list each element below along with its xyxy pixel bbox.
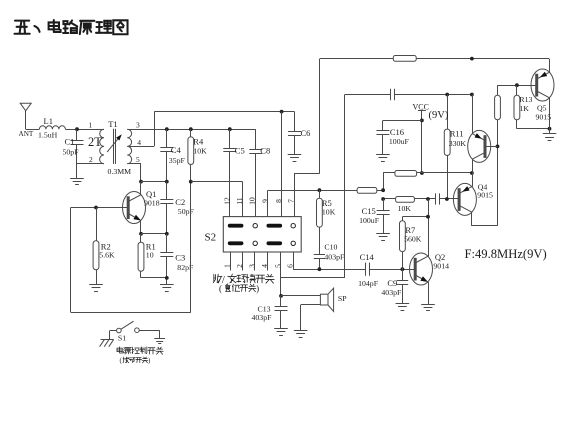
svg-text:403pF: 403pF (381, 288, 402, 297)
wire S2 pin8 up to rail (281, 112, 283, 217)
ground under Q2 (421, 305, 435, 311)
capacitor C8 (249, 129, 270, 216)
svg-text:35pF: 35pF (169, 156, 186, 165)
ground under C15 (376, 234, 390, 241)
resistor R4 10K (188, 129, 207, 164)
wire node R4bottom to S2 pin11 (191, 182, 243, 217)
label F:49.8MHz(9V) (465, 247, 547, 261)
svg-text:0.3MM: 0.3MM (108, 167, 132, 176)
ground under C16 (376, 155, 390, 162)
capacitor C5 (223, 129, 244, 216)
svg-text:S2: S2 (205, 232, 217, 244)
switch S1 (110, 321, 140, 342)
capacitor C4 35pF (160, 129, 185, 181)
ground under Q5 (543, 134, 557, 141)
switch S2 body (205, 217, 302, 252)
svg-text:9014: 9014 (433, 261, 449, 270)
svg-text:(9V): (9V) (429, 110, 449, 121)
transistor Q2 9014 (410, 252, 450, 285)
resistor 10K row199 (396, 197, 415, 213)
speaker SP (320, 288, 347, 311)
svg-text:3: 3 (136, 121, 140, 130)
label (拨动开关) (120, 357, 151, 365)
ground under speaker (294, 331, 308, 338)
svg-text:330K: 330K (449, 139, 467, 148)
wire Q1 emitter (139, 221, 169, 236)
svg-text:11: 11 (235, 197, 244, 204)
ground under C3 (160, 285, 174, 292)
wire S2 pin6 to audio row (293, 252, 295, 269)
ground under C9 (396, 304, 410, 311)
capacitor C13 403pF (252, 296, 288, 329)
svg-text:100uF: 100uF (389, 137, 410, 146)
S2 bottom pin stubs (231, 252, 268, 271)
resistor unlabeled top (393, 56, 416, 62)
wire pin4 to rail (154, 112, 156, 146)
svg-text:C6: C6 (301, 128, 311, 138)
wire row94 right (395, 93, 474, 97)
wire speaker row to riser (281, 277, 345, 279)
wire VCC row 173 (383, 171, 474, 190)
resistor R5 10K (317, 190, 336, 227)
wire Q2 collector (426, 199, 430, 256)
capacitor C15 100uF (359, 199, 390, 234)
transformer T1 primary 2T (88, 121, 104, 165)
resistor R7 560K (400, 217, 429, 270)
svg-text:C16: C16 (390, 127, 404, 137)
svg-text:10K: 10K (398, 204, 412, 213)
wire Q3 collector to Q4 (472, 159, 474, 186)
svg-text:9015: 9015 (477, 191, 493, 200)
svg-text:Q2: Q2 (435, 252, 445, 262)
svg-text:S1: S1 (118, 334, 126, 343)
capacitor C14 104pF (358, 252, 379, 288)
svg-text:1: 1 (89, 121, 93, 130)
resistor unlabeled feedback (495, 95, 501, 119)
svg-text:1: 1 (222, 264, 231, 268)
wire collector to C2 node (141, 180, 169, 184)
S2 contacts row2 (228, 241, 296, 245)
S2 bottom pin labels 1-6 (222, 264, 294, 268)
wire audio row right (369, 267, 415, 271)
label S2 收/发转换开关 (213, 274, 274, 286)
capacitor series Q4 base (436, 193, 440, 204)
svg-text:10K: 10K (193, 147, 207, 156)
svg-text:C5: C5 (235, 145, 245, 155)
wire pin3 row (127, 127, 256, 131)
wire L1-T1 with node (65, 127, 104, 131)
svg-text:): ) (256, 283, 259, 293)
svg-text:C15: C15 (362, 206, 376, 216)
resistor R11 330K (444, 95, 466, 200)
resistor R13 1K (514, 85, 532, 129)
wire audio row left (293, 267, 366, 271)
resistor R2 5.6K (93, 208, 115, 285)
svg-text:50pF: 50pF (63, 148, 80, 157)
ground under R2 (89, 285, 103, 292)
svg-text:2: 2 (89, 155, 93, 164)
svg-text:403pF: 403pF (324, 253, 345, 262)
wire ant-L1 (26, 129, 40, 131)
svg-text:5.6K: 5.6K (99, 251, 115, 260)
svg-text:VCC: VCC (413, 103, 429, 112)
ground under C6 (288, 155, 302, 162)
capacitor C16 100uF (376, 120, 409, 154)
wire Q5 base row (498, 83, 537, 95)
antenna ANT (19, 103, 34, 138)
wire Q2 emitter (428, 282, 430, 304)
svg-text:9018: 9018 (144, 199, 160, 208)
transformer T1 core with arrow (107, 119, 131, 176)
title text 五、电路原理图 (14, 20, 127, 34)
svg-text:F:49.8MHz(9V): F:49.8MHz(9V) (465, 247, 547, 261)
svg-text:R11: R11 (450, 129, 464, 139)
wire Q4 emitter row (472, 225, 498, 227)
wire R1-C3 bottom (141, 276, 169, 280)
wire row94 left (345, 94, 391, 96)
svg-text:R13: R13 (519, 95, 532, 104)
svg-text:R5: R5 (322, 198, 332, 208)
wire Q3 emitter up (472, 95, 474, 134)
transistor Q3 (unlabeled) (468, 130, 498, 162)
svg-text:Q5: Q5 (537, 104, 547, 113)
VCC terminal (413, 103, 449, 175)
wire S2 pin5 down (279, 252, 283, 298)
wire S2 pin9 up (267, 190, 269, 216)
svg-text:12: 12 (222, 197, 231, 205)
S2 top pin labels 12-7 (222, 197, 295, 205)
ground under C13 (274, 329, 288, 336)
svg-text:Q1: Q1 (146, 189, 156, 199)
wire Q5 collector down (549, 98, 551, 134)
wire row190 (268, 188, 385, 192)
wire row199 mid (414, 197, 435, 201)
transistor Q4 9015 (453, 183, 493, 216)
svg-text:403pF: 403pF (252, 313, 273, 322)
svg-text:2T: 2T (88, 135, 102, 149)
transformer T1 secondary (127, 121, 141, 165)
S2 contacts row1 (228, 224, 296, 228)
capacitor C2 50pF (160, 182, 194, 234)
label S2 (复位开关) (219, 283, 259, 293)
svg-text:10K: 10K (322, 208, 336, 217)
svg-text:R4: R4 (193, 137, 204, 147)
wire bias loop left (70, 208, 72, 313)
wire Q1 base (71, 206, 129, 210)
resistor unlabeled row190 (357, 188, 377, 194)
svg-text:5: 5 (136, 155, 140, 164)
wire T1 pin2 (77, 163, 104, 165)
transistor Q1 9018 (123, 189, 160, 224)
transistor Q5 9015 (531, 69, 554, 122)
wire row199 left (381, 197, 395, 201)
wire bias loop right to R4 (189, 164, 193, 312)
label 电源控制开关 (117, 347, 163, 354)
wire pin5 to Q1 collector (127, 164, 143, 184)
svg-text:9015: 9015 (536, 113, 552, 122)
svg-text:82pF: 82pF (177, 263, 194, 272)
wire S1 right (139, 330, 160, 338)
svg-text:1K: 1K (519, 104, 529, 113)
svg-text:(: ( (219, 283, 222, 293)
svg-text:C8: C8 (260, 146, 270, 156)
wire Q4 emitter down (471, 212, 473, 226)
svg-text:C2: C2 (175, 197, 185, 207)
svg-text:R7: R7 (405, 225, 415, 235)
svg-text:C4: C4 (171, 145, 182, 155)
svg-text:C1: C1 (65, 137, 75, 147)
capacitor C6 (288, 112, 310, 155)
resistor unlabeled row173 (395, 171, 417, 177)
capacitor C3 82pF (160, 234, 194, 284)
svg-text:C3: C3 (175, 253, 185, 263)
wire VCC to C16 (383, 120, 422, 122)
wire R13 bottom (517, 127, 551, 131)
wire pin4 tap (127, 146, 154, 148)
svg-text:C9: C9 (387, 278, 397, 288)
capacitor series row94 (391, 89, 395, 101)
wire long vertical to speaker row (344, 95, 346, 278)
svg-text:1.5uH: 1.5uH (38, 131, 58, 140)
svg-text:560K: 560K (404, 235, 422, 244)
wire to speaker (281, 295, 320, 297)
wire S2 pin7 up (294, 173, 320, 216)
capacitor C10 403pF (314, 227, 345, 269)
svg-text:): ) (148, 358, 150, 365)
svg-text:104pF: 104pF (358, 279, 379, 288)
wire to Q4 base (439, 197, 459, 201)
svg-text:/: / (222, 274, 225, 286)
svg-text:C14: C14 (360, 252, 375, 262)
wire rail VCC top-left (154, 110, 294, 114)
svg-text:50pF: 50pF (178, 207, 195, 216)
svg-text:10: 10 (146, 251, 154, 260)
svg-text:T1: T1 (108, 119, 117, 129)
resistor R1 10 (138, 234, 156, 278)
ground under C1 (70, 179, 84, 185)
svg-text:L1: L1 (44, 116, 53, 126)
capacitor C1 50pF (63, 129, 84, 178)
wire speaker return (301, 305, 321, 331)
wire feedback riser (496, 120, 500, 226)
wire top row (320, 57, 550, 73)
svg-text:SP: SP (338, 294, 347, 303)
svg-text:C10: C10 (324, 243, 337, 252)
chassis ground S1 (100, 340, 114, 347)
inductor L1 1.5uH (38, 116, 65, 140)
svg-text:4: 4 (137, 138, 141, 147)
wire Q1 collector (140, 182, 142, 195)
ground right of S1 (154, 339, 165, 344)
wire bias loop bottom (71, 312, 191, 314)
capacitor C9 403pF (381, 269, 408, 303)
svg-text:100uF: 100uF (359, 216, 380, 225)
svg-text:ANT: ANT (19, 130, 34, 138)
svg-text:10: 10 (248, 197, 257, 205)
wire pin7 riser (319, 59, 321, 174)
